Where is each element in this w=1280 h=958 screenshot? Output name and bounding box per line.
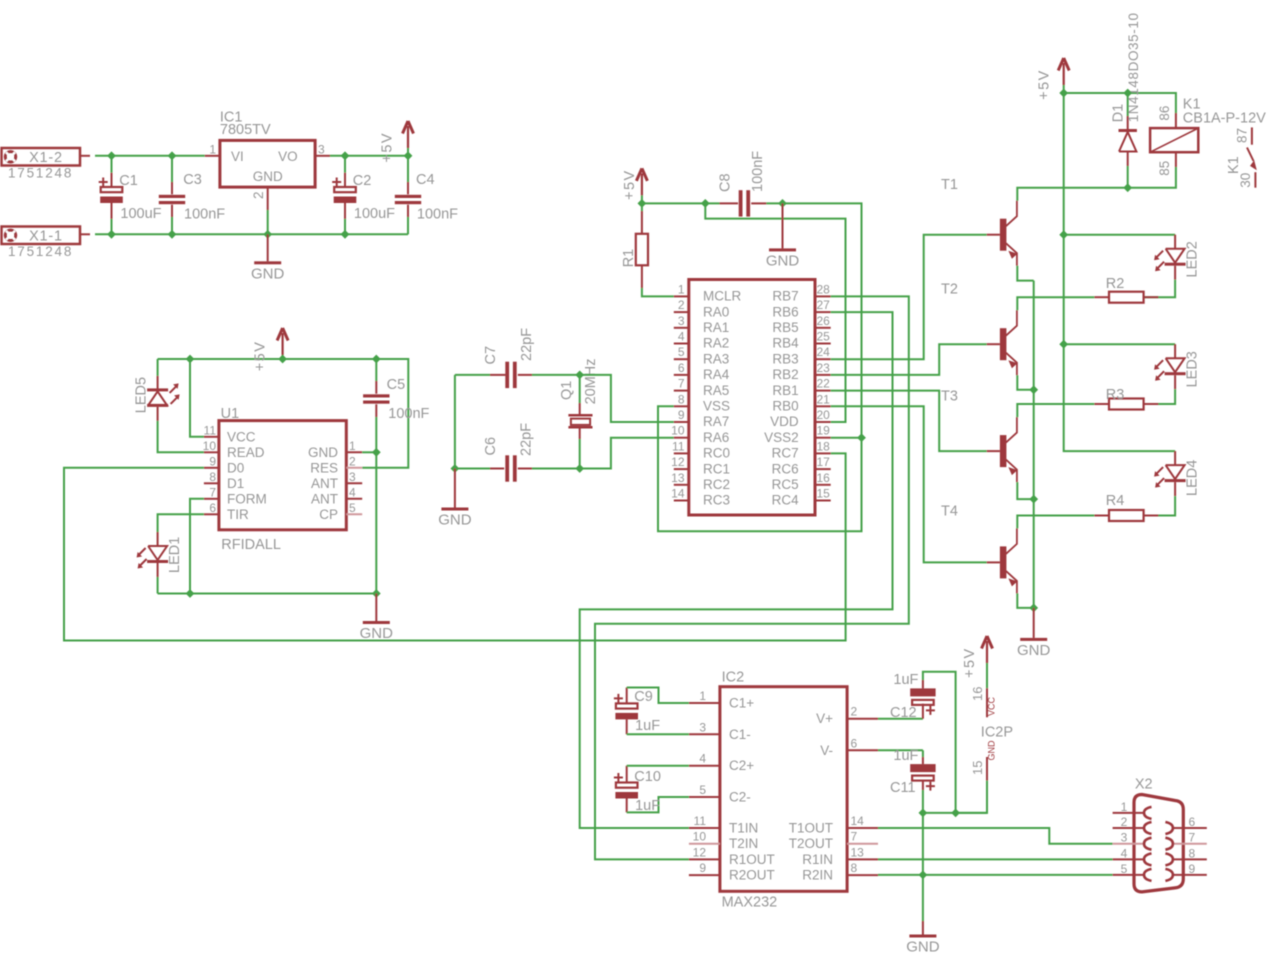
svg-text:GND: GND (308, 445, 338, 460)
svg-text:VCC: VCC (987, 696, 997, 716)
junction C8 GND (778, 199, 787, 208)
op-amp IC1 7805TV voltage regulator (220, 140, 315, 187)
svg-text:12: 12 (693, 845, 707, 859)
capacitor C2 (344, 156, 346, 173)
svg-text:5: 5 (678, 345, 685, 359)
svg-text:11: 11 (204, 423, 217, 437)
svg-text:RA6: RA6 (703, 430, 729, 445)
svg-text:1751248: 1751248 (8, 166, 73, 181)
svg-text:28: 28 (817, 282, 831, 296)
pin 4 IC2 C2+ (689, 765, 720, 767)
pin 7 PIC RA5 (674, 390, 689, 392)
svg-text:RC4: RC4 (772, 493, 799, 508)
svg-text:1N4148DO35-10: 1N4148DO35-10 (1126, 12, 1141, 122)
svg-text:17: 17 (817, 455, 831, 469)
svg-text:10: 10 (693, 830, 707, 844)
svg-text:11: 11 (694, 814, 707, 828)
svg-text:ANT: ANT (311, 476, 338, 491)
junction LED2 branch (1059, 230, 1068, 239)
svg-text:1: 1 (209, 142, 216, 156)
resistor R3 (1143, 389, 1175, 404)
LED LED1 (157, 532, 159, 546)
wire crystal to PIC RA7 (580, 375, 674, 422)
svg-text:R2OUT: R2OUT (729, 868, 775, 883)
junction C5 rail (372, 355, 381, 364)
svg-text:C7: C7 (483, 346, 499, 365)
svg-text:5: 5 (699, 783, 706, 797)
junction +5V C4 (404, 151, 413, 160)
svg-text:C12: C12 (890, 705, 917, 721)
wire PIC RB3 to T1 base (831, 235, 987, 360)
IC IC2 PIC microcontroller box (689, 280, 815, 516)
svg-text:22: 22 (817, 377, 831, 391)
svg-text:8: 8 (209, 470, 216, 484)
LED LED3 (1174, 344, 1176, 358)
resistor R4 (1143, 496, 1175, 515)
svg-text:LED2: LED2 (1184, 241, 1200, 277)
junction T3 emitter (1029, 495, 1038, 504)
svg-text:+5V: +5V (252, 341, 268, 372)
pin 10 PIC RA6 (674, 437, 689, 439)
pin 7 X2 (1173, 843, 1207, 845)
wire IC1 VO to +5V (330, 155, 408, 157)
svg-text:T1: T1 (941, 177, 958, 193)
wire U1 FORM down to ground rail (190, 499, 204, 594)
capacitor C12 (878, 718, 923, 720)
svg-text:1751248: 1751248 (8, 244, 73, 259)
svg-text:+5V: +5V (1037, 69, 1053, 100)
junction LED3 branch (1059, 340, 1068, 349)
LED LED5 (157, 359, 159, 376)
svg-text:R1: R1 (621, 249, 637, 268)
junction VSS2 (857, 433, 866, 442)
svg-text:RA2: RA2 (703, 336, 729, 351)
junction D1 bottom (1123, 183, 1132, 192)
junction C1 top (107, 151, 116, 160)
svg-text:RC2: RC2 (703, 477, 730, 492)
svg-text:MAX232: MAX232 (722, 895, 778, 911)
pin 6 IC2 V- (847, 749, 878, 751)
svg-text:5: 5 (349, 501, 356, 515)
svg-text:85: 85 (1157, 161, 1172, 176)
pin 6 X2 (1173, 827, 1207, 829)
svg-text:LED3: LED3 (1184, 351, 1200, 387)
svg-text:16: 16 (817, 471, 831, 485)
junction +5V U1 (278, 355, 287, 364)
svg-text:3: 3 (349, 470, 356, 484)
svg-text:7805TV: 7805TV (220, 122, 271, 138)
svg-text:RC6: RC6 (772, 461, 799, 476)
svg-text:X2: X2 (1135, 777, 1153, 793)
pin 9 X2 (1173, 874, 1207, 876)
svg-text:Q1: Q1 (559, 381, 575, 400)
junction C3 top (168, 151, 177, 160)
wire T3 emitter to rail (1017, 482, 1033, 499)
svg-text:RB0: RB0 (772, 399, 798, 414)
svg-text:6: 6 (851, 736, 858, 750)
pin 5 IC2 C2- (689, 796, 720, 798)
svg-text:R1IN: R1IN (802, 852, 833, 867)
svg-text:2: 2 (851, 705, 858, 719)
svg-text:86: 86 (1157, 106, 1172, 121)
wire U1 VCC (190, 359, 204, 437)
pin 4 X2 (1113, 858, 1144, 860)
wire T3 collector to R3 (1017, 404, 1061, 417)
svg-text:21: 21 (817, 392, 831, 406)
wire T2 emitter to rail (1017, 375, 1033, 390)
wire X1-1 ground rail (95, 233, 408, 235)
junction C11 bottom (919, 809, 928, 818)
svg-text:K1: K1 (1226, 156, 1242, 174)
power IC2P (986, 641, 988, 663)
svg-text:READ: READ (227, 445, 265, 460)
svg-text:2: 2 (251, 191, 266, 199)
wire C8 right to GND and VSS2 (766, 203, 861, 437)
pin 14 PIC RC3 (674, 500, 689, 502)
pin 3 PIC RA1 (674, 327, 689, 329)
svg-text:+5V: +5V (380, 132, 396, 163)
svg-text:R4: R4 (1106, 493, 1125, 509)
ground GND crystal (454, 469, 456, 508)
svg-text:1: 1 (349, 439, 356, 453)
pin 22 PIC RB1 (815, 390, 831, 392)
svg-text:T3: T3 (941, 388, 958, 404)
svg-text:10: 10 (203, 439, 217, 453)
svg-text:RB7: RB7 (772, 289, 798, 304)
svg-text:14: 14 (671, 487, 685, 501)
svg-text:9: 9 (678, 408, 685, 422)
svg-text:C4: C4 (416, 172, 435, 188)
pin 12 PIC RC1 (674, 468, 689, 470)
pin 4 U1 ANT (346, 498, 362, 500)
pin 7 IC2 T2OUT (847, 843, 878, 845)
pin 2 PIC RA0 (674, 311, 689, 313)
svg-text:9: 9 (1189, 862, 1196, 876)
svg-text:C6: C6 (483, 437, 499, 456)
transistor T2 (1000, 328, 1007, 360)
svg-text:T2IN: T2IN (729, 836, 758, 851)
svg-text:VSS: VSS (703, 399, 730, 414)
svg-text:9: 9 (699, 861, 706, 875)
pin 2 X2 (1113, 827, 1144, 829)
junction C2 top (341, 151, 350, 160)
pin 2 IC2 V+ (847, 718, 878, 720)
svg-text:15: 15 (970, 761, 985, 775)
svg-text:RC5: RC5 (772, 477, 799, 492)
svg-text:U1: U1 (221, 406, 240, 422)
svg-text:7: 7 (678, 377, 685, 391)
wire LED2 branch (1064, 234, 1175, 236)
svg-text:5: 5 (1121, 862, 1128, 876)
transistor T4 (1000, 546, 1007, 578)
capacitor C5 (375, 359, 377, 381)
wire VSS2 to VSS route (658, 406, 862, 531)
svg-text:LED4: LED4 (1184, 460, 1200, 496)
wire +5V to C8 (642, 202, 720, 204)
pin 13 IC2 R1IN (847, 858, 878, 860)
svg-text:R2: R2 (1106, 276, 1125, 292)
svg-text:RC0: RC0 (703, 446, 730, 461)
svg-text:7: 7 (209, 485, 216, 499)
pin 9 PIC RA7 (674, 421, 689, 423)
ground GND under U1 (375, 594, 377, 622)
pin 1 X2 (1113, 812, 1144, 814)
svg-text:25: 25 (817, 330, 831, 344)
wire PIC RB1 to T3 base (831, 391, 987, 452)
capacitor C11 (878, 749, 923, 751)
svg-text:4: 4 (1121, 846, 1128, 860)
junction +5V R1 (638, 199, 647, 208)
pin 7 U1 FORM (204, 498, 219, 500)
svg-text:6: 6 (678, 361, 685, 375)
power +5V arrow top-left (407, 126, 409, 148)
svg-text:GND: GND (1017, 642, 1051, 659)
pin 28 PIC RB7 (815, 295, 831, 297)
svg-text:VI: VI (231, 149, 244, 164)
pin 18 PIC RC7 (815, 452, 831, 454)
svg-text:7: 7 (851, 830, 858, 844)
svg-text:RB5: RB5 (772, 320, 798, 335)
svg-text:9: 9 (209, 454, 216, 468)
capacitor C10 (614, 773, 623, 782)
capacitor C4 (407, 156, 409, 182)
svg-text:GND: GND (360, 625, 394, 642)
svg-text:RB2: RB2 (772, 367, 798, 382)
pin 19 PIC VSS2 (815, 437, 831, 439)
pin 8 IC2 R2IN (847, 874, 878, 876)
wire U1 D0 to PIC RC7 (long route) (64, 453, 846, 640)
svg-text:T4: T4 (941, 504, 958, 520)
ground GND MAX232 (922, 921, 924, 935)
svg-text:19: 19 (817, 424, 831, 438)
svg-text:10: 10 (671, 424, 685, 438)
svg-text:IC2P: IC2P (981, 725, 1013, 741)
pin 11 U1 VCC (204, 436, 219, 438)
svg-text:C2: C2 (353, 173, 372, 189)
svg-text:11: 11 (672, 439, 685, 453)
svg-text:7: 7 (1189, 831, 1196, 845)
wire MAX232 R2IN GND to X2 pin5 (878, 874, 1113, 876)
capacitor C1 (111, 156, 113, 173)
svg-text:C5: C5 (387, 377, 406, 393)
svg-text:MCLR: MCLR (703, 289, 742, 304)
svg-text:RB6: RB6 (772, 304, 798, 319)
pin 15 PIC RC4 (815, 500, 831, 502)
svg-text:1uF: 1uF (635, 718, 660, 734)
svg-text:3: 3 (318, 142, 325, 156)
svg-text:T2: T2 (941, 282, 958, 298)
wire emitter rail (1033, 281, 1035, 608)
pin 8 X2 (1173, 858, 1207, 860)
svg-text:C1: C1 (119, 173, 138, 189)
svg-text:12: 12 (671, 455, 685, 469)
pin 27 PIC RB6 (815, 311, 831, 313)
relay K1 coil CB1A-P-12V (1175, 113, 1177, 128)
svg-text:GND: GND (766, 252, 800, 269)
svg-text:X1-2: X1-2 (29, 150, 63, 166)
pin 10 U1 READ (204, 451, 219, 453)
pin 20 PIC VDD (815, 421, 831, 423)
pin 17 PIC RC6 (815, 468, 831, 470)
pin 3 U1 ANT (346, 482, 362, 484)
svg-text:R3: R3 (1106, 387, 1125, 403)
svg-text:CP: CP (319, 507, 338, 522)
svg-text:2: 2 (678, 298, 685, 312)
wire PIC RB7 to MAX232 R1OUT (595, 296, 909, 859)
pin 3 IC1 (315, 155, 330, 157)
svg-text:1: 1 (678, 282, 685, 296)
connector X1-2 (2, 148, 81, 166)
svg-text:100uF: 100uF (120, 206, 161, 222)
svg-text:VCC: VCC (227, 429, 256, 444)
LED LED4 (1174, 451, 1176, 465)
svg-text:87: 87 (1235, 128, 1250, 143)
wire MAX232 T1OUT to X2 pin3 (878, 828, 1113, 844)
pin 8 PIC VSS (674, 405, 689, 407)
svg-text:14: 14 (851, 814, 865, 828)
transistor T3 (1000, 435, 1007, 467)
wire +5V to relay (1064, 93, 1176, 113)
pin 13 PIC RC2 (674, 484, 689, 486)
capacitor C9 (614, 694, 623, 703)
svg-text:RC3: RC3 (703, 493, 730, 508)
svg-text:100uF: 100uF (354, 206, 395, 222)
svg-text:100nF: 100nF (184, 207, 225, 223)
svg-text:100nF: 100nF (417, 207, 458, 223)
connector X1-1 (2, 227, 81, 245)
svg-text:RA5: RA5 (703, 383, 729, 398)
svg-text:VO: VO (278, 149, 298, 164)
junction IC1 GND (263, 230, 272, 239)
junction R2IN GND (919, 871, 928, 880)
svg-text:RES: RES (310, 460, 338, 475)
svg-text:4: 4 (699, 752, 706, 766)
wire ground rail under U1 (158, 593, 377, 595)
wire PIC RB6 to MAX232 T1IN (580, 312, 893, 828)
svg-text:+5V: +5V (622, 169, 638, 200)
svg-text:2: 2 (349, 454, 356, 468)
junction ground rail U1 (372, 589, 381, 598)
junction U1 VCC rail (186, 355, 195, 364)
svg-text:V+: V+ (816, 711, 833, 726)
pin 11 IC2 T1IN (689, 827, 720, 829)
junction C2 bottom (341, 230, 350, 239)
capacitor C6 (455, 468, 490, 470)
ground GND transistors (1033, 608, 1035, 638)
svg-text:22pF: 22pF (518, 423, 534, 456)
ground GND under IC1 (267, 234, 269, 261)
pin 21 PIC RB0 (815, 405, 831, 407)
svg-text:LED5: LED5 (134, 377, 150, 413)
junction D1 top (1123, 89, 1132, 98)
pin 8 U1 D1 (204, 482, 219, 484)
svg-text:C1+: C1+ (729, 696, 754, 711)
wire T4 emitter to rail (1017, 593, 1033, 608)
junction +5V right (1059, 89, 1068, 98)
wire +5V to PIC VDD (705, 203, 845, 422)
svg-text:LED1: LED1 (167, 537, 183, 573)
pin 26 PIC RB5 (815, 327, 831, 329)
svg-text:1uF: 1uF (893, 672, 918, 688)
junction emitter rail bottom (1029, 604, 1038, 613)
svg-text:RB1: RB1 (772, 383, 798, 398)
wire X1-2 to IC1 VI (+12V net) (95, 155, 205, 157)
wire MAX232 R1IN to X2 pin4 (878, 858, 1113, 860)
IC U1 RFIDALL (219, 421, 346, 530)
pin 16 PIC RC5 (815, 484, 831, 486)
wire relay coil to T1 collector (1017, 167, 1176, 201)
svg-text:C2+: C2+ (729, 758, 754, 773)
pin 1 PIC MCLR (674, 295, 689, 297)
svg-text:100nF: 100nF (388, 406, 429, 422)
svg-text:4: 4 (678, 330, 685, 344)
svg-text:RA0: RA0 (703, 304, 729, 319)
svg-text:RC7: RC7 (772, 446, 799, 461)
junction U1 GND pin net (372, 448, 381, 457)
svg-text:100nF: 100nF (750, 151, 766, 192)
svg-text:GND: GND (251, 265, 285, 282)
svg-text:22pF: 22pF (519, 328, 535, 361)
svg-text:GND: GND (438, 512, 472, 529)
pin 4 PIC RA2 (674, 343, 689, 345)
svg-text:4: 4 (349, 485, 356, 499)
junction C6 left (451, 464, 460, 473)
LED LED2 (1174, 235, 1176, 249)
pin 6 PIC RA4 (674, 374, 689, 376)
pin 9 IC2 R2OUT (689, 874, 720, 876)
svg-text:IC2: IC2 (722, 670, 745, 686)
svg-text:RA4: RA4 (703, 367, 730, 382)
svg-text:2: 2 (1121, 815, 1128, 829)
svg-text:1uF: 1uF (635, 798, 660, 814)
svg-text:RC1: RC1 (703, 461, 730, 476)
svg-text:D1: D1 (227, 476, 244, 491)
svg-text:13: 13 (671, 471, 685, 485)
pin 25 PIC RB4 (815, 343, 831, 345)
svg-text:8: 8 (851, 861, 858, 875)
pin 24 PIC RB3 (815, 358, 831, 360)
wire U1 GND net down (375, 452, 377, 593)
svg-text:13: 13 (851, 845, 865, 859)
svg-text:RA7: RA7 (703, 414, 729, 429)
junction C1 bottom (107, 230, 116, 239)
pin 6 U1 TIR (204, 513, 219, 515)
svg-text:26: 26 (817, 314, 831, 328)
wire PIC RB0 to T4 base (831, 406, 987, 562)
svg-text:C9: C9 (634, 689, 653, 705)
relay K1 contact 87-30 (1251, 127, 1253, 144)
wire +5V rail above U1 (158, 359, 409, 468)
wire GND node MAX232 (923, 812, 987, 814)
svg-text:D0: D0 (227, 460, 244, 475)
pin 5 PIC RA3 (674, 358, 689, 360)
svg-text:X1-1: X1-1 (29, 228, 63, 244)
svg-text:18: 18 (817, 439, 831, 453)
svg-text:T2OUT: T2OUT (789, 836, 833, 851)
svg-text:V-: V- (820, 743, 833, 758)
svg-text:20MHz: 20MHz (583, 358, 599, 404)
svg-text:8: 8 (678, 392, 685, 406)
svg-text:3: 3 (1121, 831, 1128, 845)
junction Q1 bottom (575, 464, 584, 473)
pin 1 U1 GND (346, 451, 362, 453)
svg-text:C1-: C1- (729, 727, 751, 742)
pin 11 PIC RC0 (674, 452, 689, 454)
junction Q1 top (575, 371, 584, 380)
svg-text:8: 8 (1189, 846, 1196, 860)
svg-text:3: 3 (678, 314, 685, 328)
ground GND under C8 (782, 203, 784, 248)
